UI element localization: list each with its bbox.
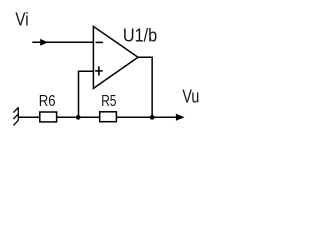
svg-text:U1/b: U1/b — [123, 25, 157, 46]
wire R5 to output arrow — [116, 116, 182, 118]
chassis ground — [13, 107, 18, 125]
op-amp U1/b triangle — [93, 26, 138, 88]
wire input Vi to op-amp inverting input — [32, 41, 93, 43]
resistor R6 — [40, 112, 57, 122]
wire op-amp output to node Vu (right, then down) — [138, 57, 153, 117]
node Vu junction dot — [150, 115, 155, 120]
svg-text:R5: R5 — [101, 93, 116, 110]
svg-text:Vu: Vu — [182, 85, 199, 106]
wire R6 to R5 — [57, 116, 100, 118]
wire non-inverting input feedback tap (left, then down to node A) — [79, 71, 94, 117]
pin minus (inverting input symbol) — [96, 41, 103, 43]
svg-text:Vi: Vi — [15, 9, 28, 30]
resistor R5 — [100, 112, 117, 122]
input signal arrowhead — [41, 40, 47, 46]
wire chassis ground to R6 — [18, 116, 39, 118]
pin plus (non-inverting input symbol) — [95, 70, 103, 72]
output arrowhead — [176, 114, 183, 120]
node A junction dot — [76, 115, 81, 120]
svg-text:R6: R6 — [39, 93, 56, 110]
